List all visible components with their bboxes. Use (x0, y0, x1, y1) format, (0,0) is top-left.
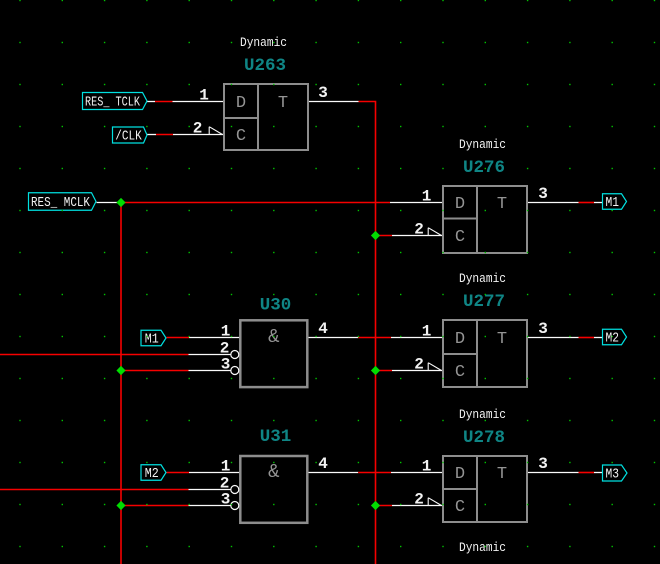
net flag RES_MCLK (29, 193, 97, 211)
net flag RES_TCLK (83, 93, 148, 110)
wire from U277 pin 3 (527, 337, 579, 339)
svg-text:M1: M1 (145, 333, 159, 348)
svg-text:2: 2 (414, 491, 424, 509)
svg-text:D: D (236, 94, 246, 113)
net flag /CLK (113, 127, 148, 143)
wire red crossing segment row 337 (358, 337, 391, 339)
wire stub to M2 flag (594, 337, 603, 339)
clock edge mark U277 pin C (428, 363, 441, 371)
wire /CLK flag stub (147, 134, 156, 136)
clock edge mark U278 pin C (428, 498, 441, 506)
wire to U278 pin 1 (391, 472, 443, 474)
wire to U278 pin 2 (392, 505, 443, 507)
flip-flop U276 body (443, 186, 527, 253)
wire to U31 pin 1 (189, 472, 240, 474)
wire to U31 pin 2 bubble (189, 489, 231, 491)
clock edge mark U276 pin C (428, 228, 441, 236)
wire red junction to U31 pin 3 (121, 505, 189, 507)
junction right bus to U276 clock (371, 231, 380, 240)
net flag M2 (output of U277) (603, 329, 627, 345)
net flag M3 (output of U278) (603, 465, 628, 481)
wire RES_TCLK flag stub (147, 101, 155, 103)
wire red bus RES_MCLK to right (121, 202, 390, 204)
junction left bus to U31 pin 3 (116, 501, 125, 510)
wire to U30 pin 2 bubble (189, 354, 231, 356)
junction RES_MCLK node (116, 198, 125, 207)
svg-text:Dynamic: Dynamic (240, 36, 287, 50)
wire red net from U263 pin 3 to vertical bus (359, 102, 376, 564)
inversion bubble pin 2 (U31) (231, 486, 239, 494)
wire red segment before M1 (579, 202, 595, 204)
svg-text:RES_ TCLK: RES_ TCLK (85, 96, 141, 111)
junction left bus to U30 pin 3 (116, 366, 125, 375)
svg-text:1: 1 (199, 87, 209, 105)
svg-text:C: C (236, 127, 246, 146)
svg-text:T: T (278, 94, 288, 113)
wire from U31 pin 4 (307, 472, 358, 474)
wire to U277 pin 1 (391, 337, 443, 339)
svg-text:U263: U263 (244, 56, 286, 76)
svg-text:2: 2 (193, 120, 203, 138)
svg-text:Dynamic: Dynamic (459, 272, 506, 286)
svg-text:U276: U276 (463, 158, 505, 178)
wire from U30 pin 4 (307, 337, 358, 339)
svg-text:Dynamic: Dynamic (459, 408, 506, 422)
flip-flop U263 body (224, 84, 308, 150)
wire to U263 pin 2 (173, 134, 224, 136)
svg-text:D: D (455, 195, 465, 214)
svg-text:3: 3 (538, 455, 548, 473)
svg-text:&: & (268, 326, 279, 348)
wire to U277 pin 2 (392, 370, 443, 372)
svg-text:T: T (497, 330, 507, 349)
svg-text:1: 1 (422, 323, 432, 341)
net flag M2 (input to U31) (141, 465, 166, 481)
wire red stub junction to U277 clock (376, 370, 393, 372)
svg-text:&: & (268, 461, 279, 483)
wire red bus RES_MCLK down left (120, 203, 122, 564)
svg-text:1: 1 (221, 458, 231, 476)
svg-text:3: 3 (538, 320, 548, 338)
svg-text:4: 4 (318, 455, 328, 473)
wire red segment before M3 (579, 472, 595, 474)
wire to U30 pin 1 (189, 337, 240, 339)
inversion bubble pin 3 (U31) (231, 502, 239, 510)
svg-text:M2: M2 (145, 467, 159, 482)
svg-text:4: 4 (318, 320, 328, 338)
svg-text:3: 3 (538, 185, 548, 203)
AND gate U31 body (240, 456, 307, 523)
wire red stub junction to U278 clock (376, 505, 393, 507)
wire red segment /CLK (156, 134, 173, 136)
wire stub to M3 flag (594, 472, 603, 474)
wire red crossing segment row 472 (358, 472, 391, 474)
svg-text:RES_ MCLK: RES_ MCLK (31, 196, 91, 211)
inversion bubble pin 2 (U30) (231, 351, 239, 359)
svg-text:3: 3 (221, 491, 231, 509)
wire from U276 pin 3 (527, 202, 579, 204)
wire red stub junction to U276 clock (376, 235, 393, 237)
svg-text:D: D (455, 330, 465, 349)
wire red segment after M1 input flag (167, 337, 190, 339)
wire to U276 pin 2 (392, 235, 443, 237)
svg-text:2: 2 (414, 356, 424, 374)
svg-text:U30: U30 (260, 296, 292, 316)
svg-text:C: C (455, 363, 465, 382)
wire red from left edge to U31 pin 2 (0, 489, 189, 491)
inversion bubble pin 3 (U30) (231, 367, 239, 375)
wire red from left edge to U30 pin 2 (0, 354, 189, 356)
svg-text:U31: U31 (260, 427, 292, 447)
wire to U30 pin 3 bubble (189, 370, 231, 372)
svg-text:1: 1 (422, 188, 432, 206)
svg-text:U278: U278 (463, 428, 505, 448)
svg-text:U277: U277 (463, 292, 505, 312)
net flag M1 (output of U276) (603, 194, 627, 210)
junction right bus to U277 clock (371, 366, 380, 375)
wire red junction to U30 pin 3 (121, 370, 189, 372)
flip-flop U277 body (443, 320, 527, 387)
wire from U263 pin 3 (308, 101, 359, 103)
wire to U31 pin 3 bubble (189, 505, 231, 507)
net flag M1 (input to U30) (141, 330, 166, 346)
svg-text:M2: M2 (606, 332, 620, 347)
wire from U278 pin 3 (527, 472, 579, 474)
svg-text:D: D (455, 465, 465, 484)
wire red segment after M2 input flag (167, 472, 190, 474)
svg-text:3: 3 (221, 356, 231, 374)
svg-text:1: 1 (221, 323, 231, 341)
svg-text:M1: M1 (606, 196, 620, 211)
wire to U276 pin 1 (390, 202, 443, 204)
svg-text:Dynamic: Dynamic (459, 138, 506, 152)
wire stub to M1 flag (594, 202, 603, 204)
AND gate U30 body (240, 320, 307, 387)
flip-flop U278 body (443, 456, 527, 522)
svg-text:C: C (455, 228, 465, 247)
svg-text:T: T (497, 465, 507, 484)
svg-text:2: 2 (414, 221, 424, 239)
svg-text:Dynamic: Dynamic (459, 541, 506, 555)
svg-text:1: 1 (422, 458, 432, 476)
svg-text:C: C (455, 498, 465, 517)
wire red segment RES_TCLK (155, 101, 173, 103)
svg-text:M3: M3 (606, 468, 620, 483)
clock edge mark U263 pin C (209, 127, 222, 135)
wire RES_MCLK flag stub (97, 202, 119, 204)
svg-text:/CLK: /CLK (115, 130, 142, 145)
svg-text:3: 3 (318, 84, 328, 102)
wire red segment before M2 (579, 337, 595, 339)
wire to U263 pin 1 (173, 101, 225, 103)
svg-text:T: T (497, 195, 507, 214)
junction right bus to U278 clock (371, 501, 380, 510)
